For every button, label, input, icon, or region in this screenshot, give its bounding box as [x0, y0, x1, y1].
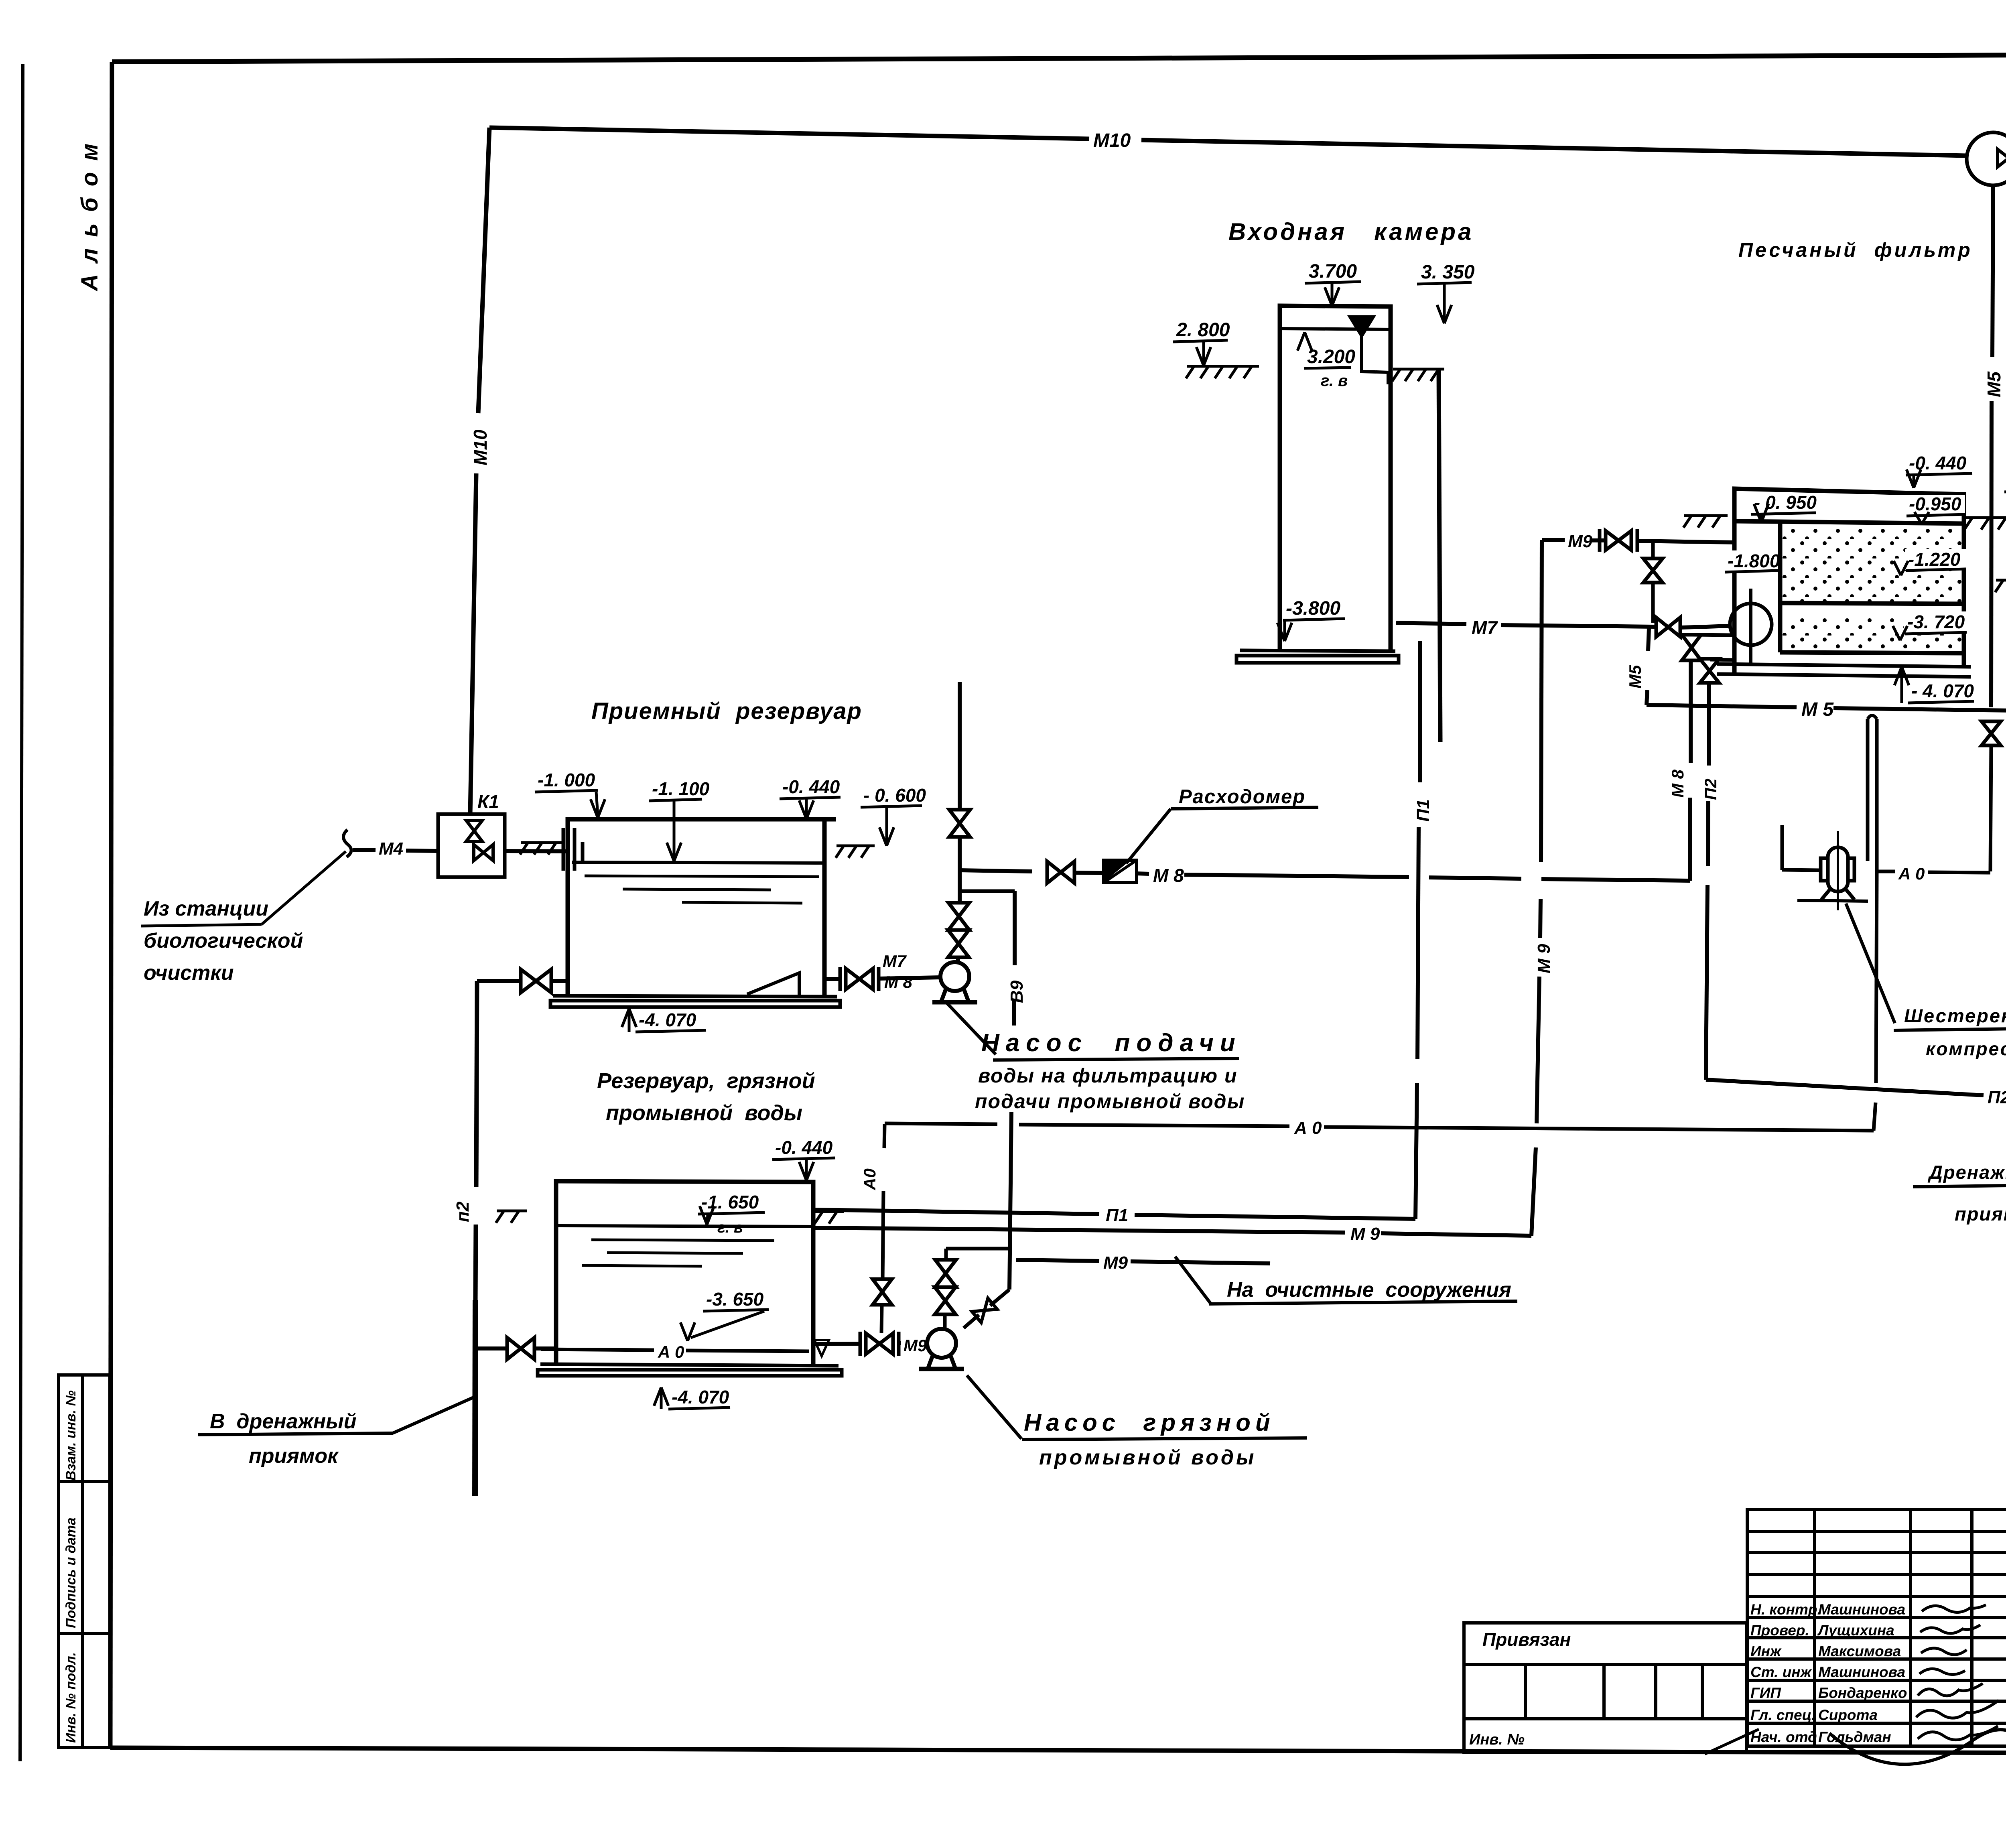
svg-text:Расходомер: Расходомер: [1179, 786, 1306, 808]
valve 1 dirty pump stack: [935, 1260, 956, 1287]
diagonal to dirty pump: [964, 1290, 1009, 1328]
pipe M5 horizontal: [1647, 705, 1797, 707]
svg-text:М9: М9: [1568, 532, 1593, 551]
water level triangle marker: [1350, 317, 1374, 336]
riser from K3 down (M5): [1992, 185, 1993, 357]
svg-text:Входная камера: Входная камера: [1228, 218, 1474, 245]
signature squiggle 7: [1918, 1726, 1998, 1740]
signature squiggle 5: [1918, 1684, 1983, 1696]
svg-text:Взам. инв. №: Взам. инв. №: [63, 1390, 79, 1480]
svg-text:Провер.: Провер.: [1750, 1622, 1809, 1639]
ground hatch left of filter: [1683, 516, 1728, 528]
pipe AO lower: [885, 1123, 997, 1124]
pipe M9 discharge to treatment: [1016, 1260, 1099, 1261]
leader from pump: [947, 1003, 996, 1054]
pipe M8 riser: [1690, 798, 1690, 881]
svg-text:Машнинова: Машнинова: [1818, 1664, 1905, 1680]
svg-text:Из станции: Из станции: [144, 897, 268, 920]
svg-text:воды на фильтрацию и: воды на фильтрацию и: [978, 1064, 1238, 1087]
compressor suction vertical: [1781, 825, 1784, 870]
leader to compressor: [1846, 904, 1895, 1023]
svg-text:М 8: М 8: [1153, 865, 1184, 886]
valve 2 dirty pump stack: [935, 1287, 956, 1314]
svg-text:г. в: г. в: [717, 1219, 743, 1236]
valve K3 circle: [1967, 132, 2006, 185]
ground hatch right of recv tank: [836, 846, 875, 858]
pipe P2 riser: [1709, 683, 1709, 766]
svg-text:п2: п2: [453, 1201, 473, 1222]
svg-text:3.700: 3.700: [1309, 261, 1357, 282]
ground hatch left of chamber: [1186, 366, 1259, 378]
valve recv tank drain: [521, 969, 551, 993]
svg-text:компрессор: компрессор: [1926, 1038, 2006, 1059]
signature squiggle 2: [1920, 1625, 1980, 1633]
sand layers dotted: [1781, 529, 1963, 602]
svg-text:-1. 650: -1. 650: [701, 1192, 759, 1212]
check valve diagonal: [972, 1298, 997, 1322]
svg-text:Песчаный фильтр: Песчаный фильтр: [1738, 239, 1973, 261]
title block tables: [1464, 1509, 2006, 1752]
inlet chamber walls: [1280, 306, 1440, 742]
receiving reservoir walls: [568, 819, 836, 996]
svg-text:- 0. 600: - 0. 600: [863, 785, 926, 806]
leader to P2: [393, 1397, 474, 1433]
svg-text:П1: П1: [1413, 799, 1433, 822]
left drain valve to P2: [535, 1346, 556, 1350]
svg-text:промывной воды: промывной воды: [1039, 1446, 1256, 1469]
svg-text:М 8: М 8: [1668, 769, 1687, 798]
drain funnel symbol: [814, 1340, 829, 1356]
ground hatch right of chamber: [1392, 369, 1444, 381]
valve on P2 riser: [1700, 659, 1719, 683]
gear compressor: [1797, 831, 1868, 910]
svg-text:М 9: М 9: [1350, 1224, 1380, 1244]
frame left border: [110, 62, 112, 1748]
svg-text:Резервуар, грязной: Резервуар, грязной: [597, 1069, 815, 1093]
svg-text:А 0: А 0: [1898, 864, 1925, 883]
signature squiggle 1: [1922, 1605, 1986, 1612]
arrow to water level: [1297, 332, 1312, 351]
underline: [198, 1433, 393, 1435]
svg-text:М4: М4: [379, 839, 403, 859]
svg-text:приямок: приямок: [249, 1444, 339, 1468]
valve on M9 stub: [1600, 529, 1637, 552]
pipe P1 riser: [1415, 1083, 1417, 1219]
leader from dirty pump: [967, 1375, 1021, 1439]
svg-text:г. в: г. в: [1321, 372, 1348, 390]
pipe M5 link from M7 down: [1648, 628, 1649, 651]
ground hatch left of standpipe: [1995, 580, 2006, 592]
valve dirty pump suction: [860, 1332, 899, 1356]
pipe M10 vertical to K1: [478, 128, 489, 413]
svg-text:-3. 720: -3. 720: [1907, 611, 1965, 632]
pipe B9: [1013, 891, 1017, 965]
valve recv tank outlet: [840, 967, 879, 991]
svg-text:Гольдман: Гольдман: [1818, 1729, 1891, 1745]
svg-text:-4. 070: -4. 070: [639, 1009, 696, 1030]
pipe M7 from chamber to filter: [1396, 623, 1466, 624]
svg-text:ГИП: ГИП: [1750, 1685, 1781, 1701]
svg-text:Дренажный: Дренажный: [1927, 1162, 2006, 1183]
svg-text:Инв. № подл.: Инв. № подл.: [63, 1652, 79, 1743]
valve on AO drop: [873, 1279, 892, 1305]
svg-text:М10: М10: [1093, 130, 1131, 151]
svg-text:-0. 440: -0. 440: [782, 776, 840, 797]
chamber water level line: [1280, 329, 1391, 329]
drain to P2: valve: [552, 979, 568, 983]
valves above dirty pump: [946, 1247, 1009, 1251]
pipe M10 horizontal: [489, 128, 1089, 139]
valve 2 above pump: [948, 930, 969, 957]
frame bottom border: [110, 1748, 2006, 1754]
compressor riser double: [1866, 719, 1870, 861]
svg-text:Насос грязной: Насос грязной: [1024, 1409, 1275, 1436]
outlet M7/M8 with valve: [824, 977, 842, 981]
svg-text:-3.800: -3.800: [1286, 598, 1340, 619]
sludge ramp in tank: [747, 973, 799, 995]
bowtie valve in K1: [474, 845, 493, 861]
svg-text:Шестеренчатый: Шестеренчатый: [1904, 1005, 2006, 1026]
svg-text:-1. 100: -1. 100: [652, 778, 710, 799]
svg-text:М 8: М 8: [884, 973, 913, 991]
svg-text:А л ь б о м: А л ь б о м: [77, 141, 103, 292]
signature squiggle 4: [1919, 1669, 1965, 1674]
svg-text:Максимова: Максимова: [1818, 1643, 1901, 1659]
svg-text:П2: П2: [1988, 1088, 2006, 1107]
water ripple dashes: [585, 876, 819, 877]
tee to B9 riser: [960, 889, 1015, 893]
svg-text:М7: М7: [883, 952, 907, 971]
svg-text:Гл. спец.: Гл. спец.: [1750, 1707, 1816, 1723]
svg-text:А 0: А 0: [1294, 1118, 1322, 1138]
svg-text:Подпись и дата: Подпись и дата: [63, 1517, 79, 1628]
signature squiggle 3: [1921, 1648, 1967, 1655]
svg-text:Н. контр.: Н. контр.: [1750, 1601, 1821, 1618]
svg-text:П2: П2: [1701, 778, 1720, 800]
svg-text:В9: В9: [1007, 980, 1027, 1003]
left margin strip table: [59, 1375, 110, 1748]
valve on M8 riser: [1682, 635, 1701, 660]
frame top border: [112, 53, 2006, 62]
pump suction vertical: [958, 682, 962, 810]
svg-text:-3. 650: -3. 650: [706, 1289, 764, 1310]
small valve in K1: [466, 820, 482, 841]
dirty tank water line: [556, 1226, 813, 1227]
svg-text:промывной воды: промывной воды: [606, 1101, 802, 1125]
svg-text:подачи промывной воды: подачи промывной воды: [975, 1090, 1245, 1113]
svg-text:В дренажный: В дренажный: [210, 1410, 356, 1433]
pipe M9 riser: [1531, 1147, 1536, 1236]
valve dirty tank drain: [507, 1338, 534, 1359]
pipe B9 lower part: [1009, 1112, 1011, 1290]
sand filter box: [1734, 489, 1964, 675]
pipe M4 to tank: [505, 851, 568, 851]
svg-text:Нач. отд: Нач. отд: [1750, 1729, 1817, 1745]
svg-text:-0. 440: -0. 440: [1909, 453, 1967, 473]
valve above tee: [949, 810, 970, 837]
svg-text:2. 800: 2. 800: [1176, 319, 1230, 341]
svg-text:К1: К1: [477, 791, 499, 812]
svg-text:Насос подачи: Насос подачи: [981, 1029, 1242, 1057]
valve on M8 branch: [1047, 861, 1074, 883]
pipe P2 horizontal to pit: [1706, 1080, 1984, 1095]
svg-text:приямок: приямок: [1955, 1203, 2006, 1225]
svg-text:Приемный резервуар: Приемный резервуар: [591, 698, 862, 724]
dirty tank walls: [556, 1181, 813, 1364]
svg-text:-4. 070: -4. 070: [672, 1387, 729, 1407]
svg-text:Ст. инж: Ст. инж: [1750, 1664, 1812, 1680]
svg-text:Сирота: Сирота: [1818, 1707, 1878, 1723]
valve M9-M7 link: [1643, 558, 1663, 583]
pipe AO upper: [1877, 870, 1895, 873]
ground hatch right of dirty tank: [814, 1212, 844, 1224]
pipe M9 horizontal: [813, 1228, 1345, 1233]
svg-text:Инж: Инж: [1750, 1643, 1782, 1659]
svg-text:А 0: А 0: [658, 1342, 684, 1361]
valve bowtie in K3: [1998, 149, 2006, 167]
pump discharge M8 branch: [960, 870, 1032, 871]
svg-text:А0: А0: [860, 1168, 879, 1190]
floor line AO inside dirty tank: [541, 1349, 654, 1350]
flow meter (rashodomer): [1104, 860, 1137, 883]
valve between M9 stub and M7: [1651, 542, 1655, 558]
svg-text:биологической: биологической: [144, 929, 303, 952]
receiving reservoir base plate: [550, 996, 840, 1007]
svg-text:На очистные сооружения: На очистные сооружения: [1227, 1278, 1511, 1302]
svg-text:Лущихина: Лущихина: [1817, 1622, 1894, 1639]
svg-text:-1. 000: -1. 000: [538, 770, 595, 790]
valve on drain branch below M5: [1982, 721, 2001, 745]
svg-text:- 4. 070: - 4. 070: [1911, 680, 1974, 701]
filter inlet circle: [1730, 603, 1772, 645]
filter bottom slab: [1717, 664, 1971, 677]
valve 1 above pump: [948, 903, 969, 930]
svg-text:Инв. №: Инв. №: [1469, 1731, 1525, 1748]
dirty wash-water pump: [919, 1329, 964, 1369]
svg-text:М10: М10: [470, 429, 491, 465]
svg-text:3. 350: 3. 350: [1421, 262, 1475, 283]
pipe P2 vertical: [476, 981, 477, 1187]
svg-text:-0. 440: -0. 440: [775, 1137, 833, 1158]
suction to dirty pump: [813, 1344, 859, 1344]
svg-text:П1: П1: [1106, 1206, 1128, 1225]
drain branch vertical to AO header: [1990, 745, 1991, 871]
dirty tank base plate: [538, 1364, 842, 1376]
svg-text:Машнинова: Машнинова: [1818, 1601, 1905, 1618]
svg-text:М5: М5: [1984, 371, 2004, 397]
svg-text:Бондаренко: Бондаренко: [1818, 1685, 1907, 1701]
ground hatch right of filter: [1964, 518, 2006, 530]
AO drop to dirty tank: [884, 1124, 885, 1148]
svg-text:М 5: М 5: [1801, 699, 1834, 720]
pipe P1 horizontal: [813, 1210, 1099, 1214]
inlet flange on receiving tank: [563, 828, 583, 871]
svg-text:М9: М9: [1103, 1253, 1128, 1273]
svg-text:-1.220: -1.220: [1908, 549, 1961, 570]
svg-text:-1.800: -1.800: [1728, 550, 1780, 571]
svg-text:М9: М9: [904, 1336, 927, 1355]
signature diagonal: [1705, 1729, 1759, 1754]
sheet left edge: [20, 64, 23, 1761]
svg-text:М5: М5: [1626, 665, 1645, 688]
ground hatch left of dirty tank: [496, 1211, 527, 1223]
signature flourish: [1829, 1730, 2006, 1789]
signature squiggle 6: [1916, 1700, 1999, 1718]
underline leader: [141, 924, 262, 926]
valve box K1: [438, 814, 505, 877]
ground hatch left of recv tank: [520, 843, 563, 855]
chamber weir outlet: [1362, 336, 1388, 384]
supply pump (Nasos podachi): [932, 962, 977, 1002]
svg-text:-0.950: -0.950: [1909, 493, 1961, 514]
pipe break symbol M4: [343, 830, 351, 857]
svg-text:3.200: 3.200: [1307, 346, 1355, 368]
leader diagonal to M4: [262, 851, 346, 924]
svg-text:очистки: очистки: [144, 961, 234, 985]
svg-text:Привязан: Привязан: [1482, 1629, 1571, 1650]
svg-text:М7: М7: [1472, 617, 1498, 638]
valve on M7: [1656, 617, 1680, 637]
receiving tank water line: [572, 862, 822, 863]
svg-text:- 0. 950: - 0. 950: [1754, 492, 1817, 513]
inlet chamber base plate: [1236, 650, 1399, 663]
pipe M9 stub to filter: [1542, 538, 1565, 542]
svg-text:М 9: М 9: [1534, 944, 1554, 973]
